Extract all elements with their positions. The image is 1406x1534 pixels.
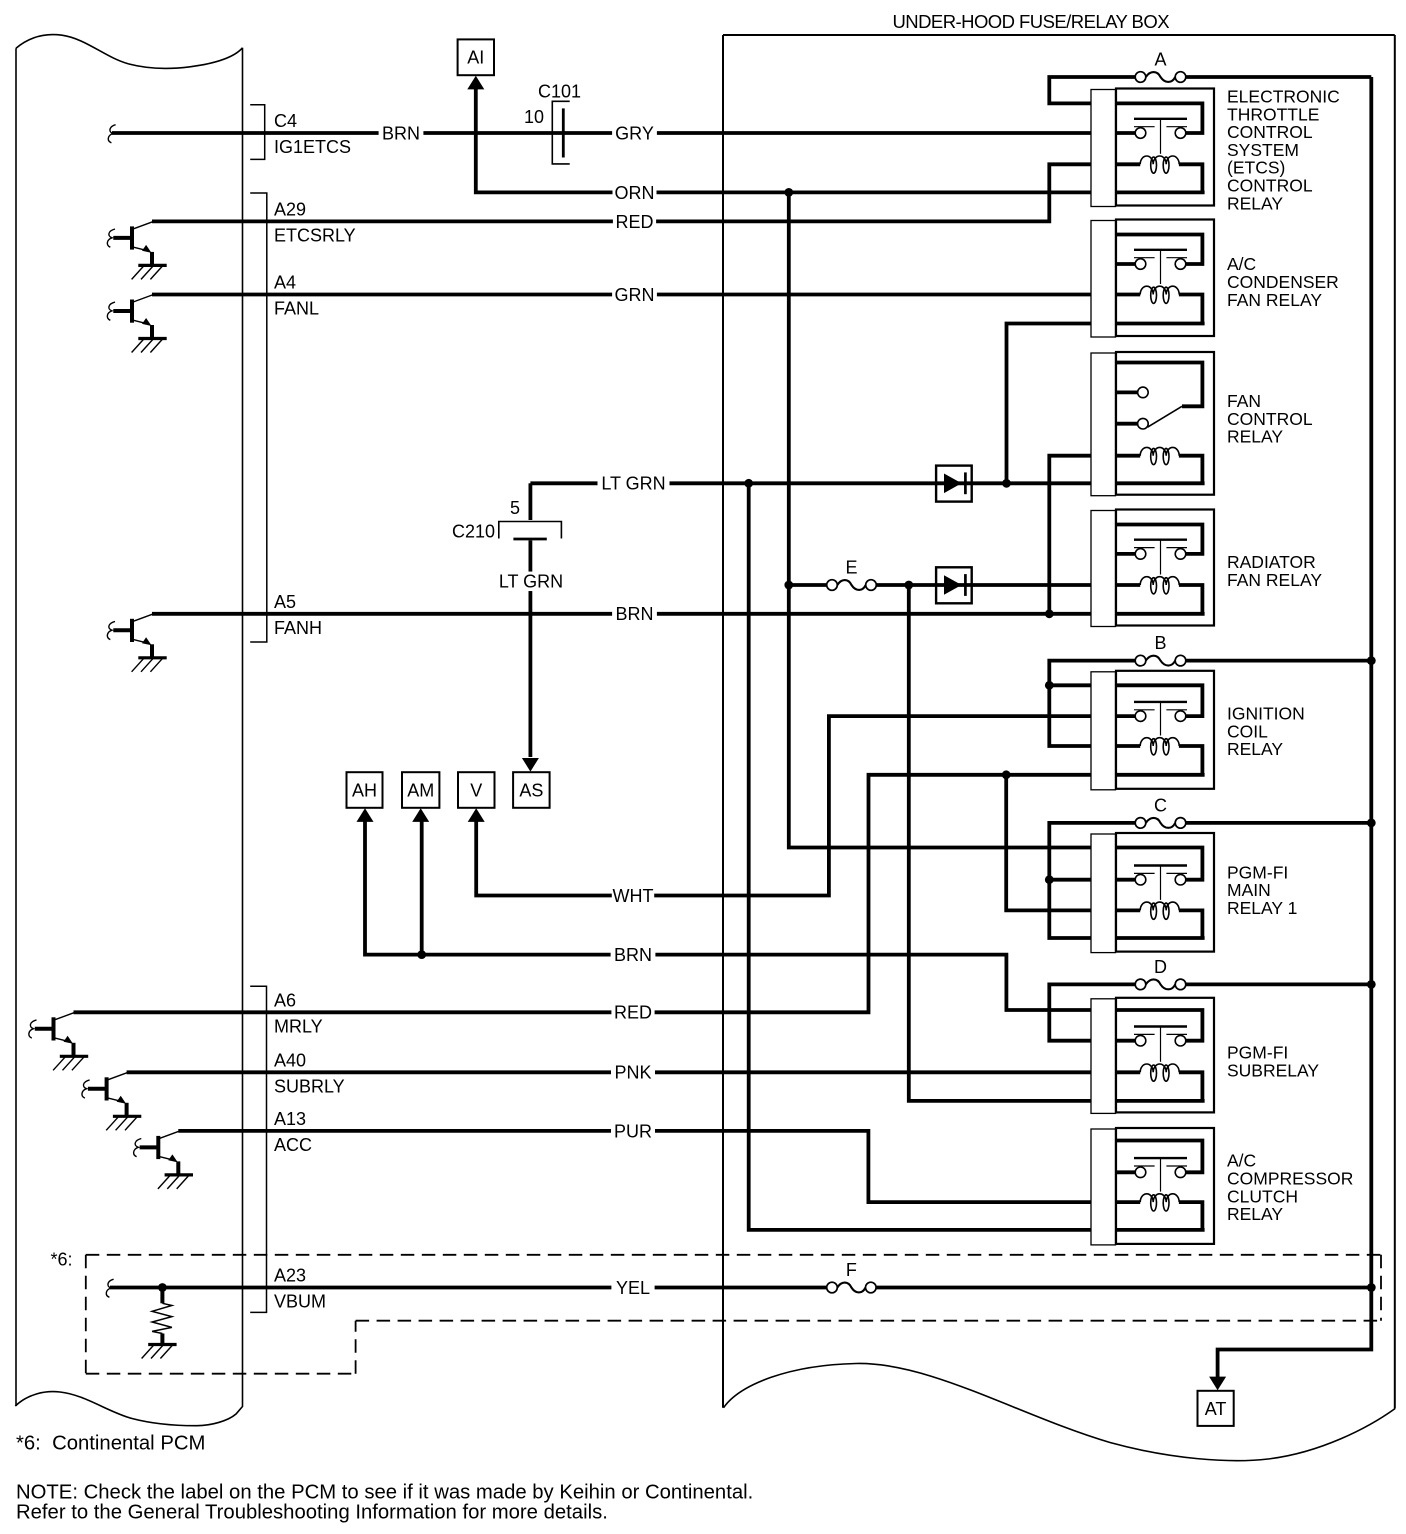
svg-text:RELAY 1: RELAY 1 <box>1227 898 1297 918</box>
junction E fuse right node <box>904 581 913 590</box>
label PGM-FI SUBRELAY <box>1227 1043 1319 1081</box>
pin label A40/SUBRLY <box>274 1050 345 1096</box>
svg-text:YEL: YEL <box>616 1278 650 1298</box>
svg-text:5: 5 <box>510 498 520 518</box>
dashed box *6 Continental PCM region <box>86 1255 1381 1374</box>
svg-text:V: V <box>470 780 482 800</box>
junction E fuse left node <box>784 581 793 590</box>
wire fan control relay coil pin3 down to FANH BRN <box>1049 456 1117 614</box>
transistor Q2 (FANL driver) with ground <box>107 295 166 353</box>
svg-text:ACC: ACC <box>274 1135 312 1155</box>
svg-text:MRLY: MRLY <box>274 1016 323 1036</box>
wire A29 RED to ETCS relay pin3 (up at x=1049) <box>152 164 1117 221</box>
svg-text:10: 10 <box>524 107 544 127</box>
connector bracket at ETCS control relay <box>1091 90 1116 207</box>
label LT GRN (horizontal) <box>598 474 670 494</box>
label BRN (2nd) <box>611 945 656 965</box>
wire fuse A feed loop to ETCS relay pin1 <box>1049 77 1140 103</box>
connector C210 symbol <box>499 522 562 540</box>
relay A/C condenser fan relay <box>1116 220 1214 337</box>
label RED (MRLY) <box>611 1003 654 1023</box>
box AS <box>513 772 550 808</box>
relay PGM-FI main relay 1 <box>1116 833 1214 952</box>
relay fan control relay <box>1116 352 1214 495</box>
label BRN (C4) <box>379 123 424 143</box>
fuse D <box>1135 957 1186 990</box>
label LT GRN (vertical) <box>495 572 567 592</box>
wire fuse C tap to PGM-FI main relay 1 pin2 <box>1049 878 1117 882</box>
svg-text:A13: A13 <box>274 1109 306 1129</box>
wire A6 RED (MRLY) to ignition coil relay pin4 <box>74 775 1118 1013</box>
junction ORN branch <box>784 188 793 197</box>
svg-text:SUBRLY: SUBRLY <box>274 1076 345 1096</box>
wire LT GRN below C210 to AS arrow <box>529 541 533 758</box>
pin label C4/IG1ETCS <box>274 111 351 157</box>
label ORN <box>613 183 657 203</box>
wire LT GRN horizontal to fan control relay pin4 <box>530 481 1117 485</box>
wire fuse C line <box>1049 823 1371 938</box>
svg-text:FAN RELAY: FAN RELAY <box>1227 290 1322 310</box>
wire fuse A output to main rail corner <box>1181 75 1372 79</box>
svg-text:A23: A23 <box>274 1266 306 1286</box>
pin bracket A6/A40/A13/A23 <box>250 986 266 1312</box>
svg-text:E: E <box>845 558 857 578</box>
svg-text:A5: A5 <box>274 592 296 612</box>
fuse E <box>827 558 877 591</box>
svg-text:LT GRN: LT GRN <box>601 474 665 494</box>
arrowhead into AT <box>1209 1377 1226 1391</box>
diode D1 on LT GRN line <box>936 466 972 502</box>
pin label A13/ACC <box>274 1109 312 1155</box>
svg-text:LT GRN: LT GRN <box>499 572 563 592</box>
svg-text:*6: Continental PCM: *6: Continental PCM <box>16 1433 205 1455</box>
wire LT GRN vertical to C210 <box>529 483 533 520</box>
svg-text:AI: AI <box>467 48 484 68</box>
svg-text:BRN: BRN <box>615 604 653 624</box>
junction rail x fuse B <box>1367 656 1376 665</box>
svg-text:BRN: BRN <box>614 945 652 965</box>
label RADIATOR FAN RELAY <box>1227 552 1322 590</box>
wire fuse B tap to ignition coil relay pin1 <box>1049 683 1117 687</box>
wire branch E node down to PGM-FI subrelay pin4 <box>909 585 1117 1101</box>
pin bracket A29/A4/A5 <box>250 193 267 642</box>
svg-text:FANL: FANL <box>274 299 319 319</box>
svg-text:AT: AT <box>1205 1399 1227 1419</box>
svg-text:BRN: BRN <box>382 123 420 143</box>
under-hood fuse/relay box outline (torn-edge box) <box>723 35 1395 1461</box>
label A/C CONDENSER FAN RELAY <box>1227 254 1339 310</box>
wire A23 YEL (VBUM) through fuse F to main rail <box>110 1286 1371 1290</box>
junction fuse C tap <box>1045 875 1054 884</box>
box AM <box>402 772 439 808</box>
junction LT GRN x down-branch <box>744 479 753 488</box>
svg-text:AS: AS <box>519 780 543 800</box>
hook at C4 wire start <box>108 125 115 143</box>
svg-text:FANH: FANH <box>274 618 322 638</box>
wire A4 GRN to A/C condenser relay pin3 <box>152 293 1117 297</box>
wire AM branch riser <box>420 820 424 955</box>
fuse F <box>827 1260 876 1293</box>
svg-text:A40: A40 <box>274 1050 306 1070</box>
relay ETCS control relay <box>1116 89 1214 206</box>
relay ignition coil relay <box>1116 671 1214 789</box>
svg-text:A4: A4 <box>274 273 296 293</box>
transistor Q1 (ETCSRLY driver) with ground <box>107 222 166 280</box>
relay A/C compressor clutch relay <box>1116 1128 1214 1244</box>
arrowhead into AS <box>522 758 539 772</box>
wire BRN (2nd) from AH riser to PGM-FI subrelay pin1 <box>365 820 1117 1010</box>
wire A40 PNK (SUBRLY) to PGM-FI subrelay pin3 <box>127 1070 1117 1074</box>
wire fuse B line <box>1049 661 1371 746</box>
svg-text:A29: A29 <box>274 199 306 219</box>
svg-text:A: A <box>1154 50 1166 70</box>
label PGM-FI MAIN RELAY 1 <box>1227 862 1297 918</box>
pin label A5/FANH <box>274 592 322 638</box>
svg-text:ETCSRLY: ETCSRLY <box>274 225 356 245</box>
svg-text:PNK: PNK <box>614 1063 651 1083</box>
connector bracket at PGM-FI main relay 1 <box>1091 834 1116 953</box>
pin label A29/ETCSRLY <box>274 199 356 245</box>
main supply rail down right side to AT arrow <box>1218 77 1372 1378</box>
transistor Q4 (MRLY driver) with ground <box>29 1013 88 1071</box>
svg-text:C4: C4 <box>274 111 297 131</box>
pin label A6/MRLY <box>274 990 323 1036</box>
junction rail x fuse F (YEL) <box>1367 1283 1376 1292</box>
junction BRN2 AM branch <box>417 950 426 959</box>
label IGNITION COIL RELAY <box>1227 704 1305 760</box>
box AI <box>458 39 494 75</box>
fuse C <box>1135 795 1186 828</box>
svg-text:RELAY: RELAY <box>1227 739 1283 759</box>
svg-text:PUR: PUR <box>614 1121 652 1141</box>
junction MRLY branch <box>1002 770 1011 779</box>
svg-text:RELAY: RELAY <box>1227 1204 1283 1224</box>
fuse B <box>1135 633 1186 666</box>
svg-text:*6:: *6: <box>51 1250 73 1270</box>
svg-text:GRN: GRN <box>615 285 655 305</box>
label RED (ETCSRLY) <box>613 212 656 232</box>
connector bracket at A/C condenser fan relay <box>1091 221 1116 338</box>
svg-text:IG1ETCS: IG1ETCS <box>274 137 351 157</box>
junction LT GRN x up-branch <box>1002 479 1011 488</box>
label PNK (SUBRLY) <box>611 1063 655 1083</box>
arrowhead into AI <box>467 76 484 90</box>
relay PGM-FI subrelay <box>1116 998 1214 1113</box>
junction rail x fuse D <box>1367 980 1376 989</box>
svg-text:VBUM: VBUM <box>274 1292 326 1312</box>
wire A13 PUR (ACC) to A/C compressor clutch relay pin3 <box>178 1131 1117 1202</box>
wire fuse D line <box>1049 984 1371 1040</box>
svg-text:F: F <box>846 1260 857 1280</box>
box V <box>458 772 495 808</box>
wire branch LT GRN up to A/C condenser relay pin4 <box>1007 324 1118 484</box>
wire C4 BRN/GRY to ETCS relay pin2 <box>112 131 1117 135</box>
transistor Q3 (FANH driver) with ground <box>107 614 166 672</box>
label GRN (FANL) <box>612 285 657 305</box>
connector bracket at ignition coil relay <box>1091 672 1116 790</box>
wire fuse E line to radiator fan relay pin3 <box>789 583 1117 587</box>
svg-text:B: B <box>1154 633 1166 653</box>
junction VBUM resistor tap <box>158 1283 167 1292</box>
wire branch MRLY down to PGM-FI main relay 1 pin3 <box>1006 775 1117 911</box>
label WHT <box>612 886 654 906</box>
arrowhead into AM <box>412 808 429 822</box>
fuse A <box>1135 50 1186 83</box>
junction FANH BRN x fan-coil <box>1045 609 1054 618</box>
label YEL (VBUM) <box>611 1278 654 1298</box>
wire AI branch riser and ORN feed to ETCS relay pin4 <box>476 88 1117 192</box>
junction fuse B tap <box>1045 681 1054 690</box>
arrowhead into AH <box>357 808 374 822</box>
resistor in Continental PCM (*6) with ground <box>142 1288 177 1359</box>
wire WHT from V box to ignition coil relay pin2 <box>476 716 1117 895</box>
svg-text:RELAY: RELAY <box>1227 427 1283 447</box>
pin label A23/VBUM <box>274 1266 326 1312</box>
svg-text:RED: RED <box>614 1003 652 1023</box>
svg-text:C: C <box>1154 795 1167 815</box>
arrowhead into V <box>468 808 485 822</box>
svg-text:AM: AM <box>407 780 434 800</box>
hook at A23 wire start <box>106 1279 113 1297</box>
relay radiator fan relay <box>1116 510 1214 626</box>
connector bracket at radiator fan relay <box>1091 511 1116 627</box>
label ELECTRONIC THROTTLE CONTROL SYSTEM (ETCS) CONTROL RELAY <box>1227 87 1340 214</box>
label BRN (FANH) <box>612 604 657 624</box>
box AH <box>347 772 383 808</box>
svg-text:RED: RED <box>615 212 653 232</box>
pin label A4/FANL <box>274 273 319 319</box>
wire branch LT GRN down to A/C compressor clutch relay pin4 <box>749 483 1117 1230</box>
svg-text:AH: AH <box>352 780 377 800</box>
junction rail x fuse C <box>1367 819 1376 828</box>
diode D2 on fuse E line <box>936 567 972 603</box>
svg-text:SUBRELAY: SUBRELAY <box>1227 1061 1319 1081</box>
svg-text:FAN RELAY: FAN RELAY <box>1227 570 1322 590</box>
svg-text:C101: C101 <box>538 82 581 102</box>
pin bracket C4 <box>250 105 265 160</box>
connector bracket at PGM-FI subrelay <box>1091 999 1116 1114</box>
wire ORN branch down to E fuse and PGM-FI main relay 1 pin1 <box>789 192 1117 847</box>
wire A5 BRN (FANH) to radiator fan relay pin4 <box>152 612 1117 616</box>
transistor Q5 (SUBRLY driver) with ground <box>82 1073 141 1131</box>
svg-text:D: D <box>1154 957 1167 977</box>
PCM connector body (torn-edge box) <box>15 35 243 1426</box>
connector bracket at A/C compressor clutch relay <box>1091 1129 1116 1245</box>
svg-text:NOTE: Check the label on the P: NOTE: Check the label on the PCM to see … <box>16 1482 753 1504</box>
svg-text:RELAY: RELAY <box>1227 193 1283 213</box>
svg-text:ORN: ORN <box>615 183 655 203</box>
connector C101 symbol <box>552 101 569 164</box>
connector bracket at fan control relay <box>1091 353 1116 496</box>
label PUR (ACC) <box>611 1121 655 1141</box>
svg-text:C210: C210 <box>452 522 495 542</box>
label FAN CONTROL RELAY <box>1227 391 1313 447</box>
svg-text:GRY: GRY <box>615 123 654 143</box>
svg-text:Refer to the General Troublesh: Refer to the General Troubleshooting Inf… <box>16 1502 608 1524</box>
box AT <box>1198 1391 1234 1426</box>
transistor Q6 (ACC driver) with ground <box>134 1131 193 1189</box>
label A/C COMPRESSOR CLUTCH RELAY <box>1227 1151 1353 1224</box>
svg-text:UNDER-HOOD FUSE/RELAY BOX: UNDER-HOOD FUSE/RELAY BOX <box>893 11 1170 32</box>
svg-text:A6: A6 <box>274 990 296 1010</box>
label GRY <box>612 123 657 143</box>
svg-text:WHT: WHT <box>613 886 654 906</box>
